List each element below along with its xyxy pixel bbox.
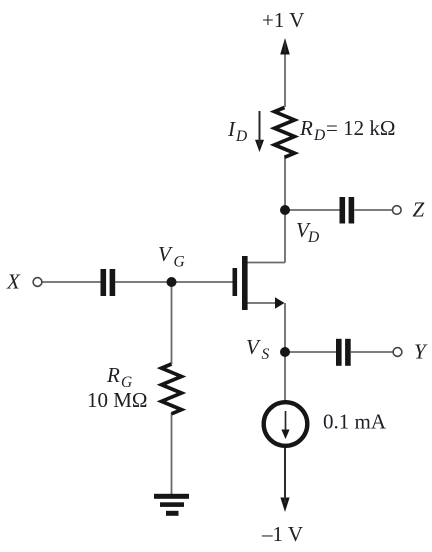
svg-text:–1 V: –1 V <box>261 522 303 546</box>
svg-text:I: I <box>227 117 236 141</box>
svg-text:G: G <box>174 254 185 271</box>
svg-text:V: V <box>158 242 173 266</box>
svg-text:D: D <box>313 127 325 144</box>
svg-text:= 12 kΩ: = 12 kΩ <box>326 116 395 140</box>
svg-text:D: D <box>307 229 319 246</box>
svg-text:10 MΩ: 10 MΩ <box>87 388 148 412</box>
svg-text:0.1 mA: 0.1 mA <box>323 410 387 434</box>
svg-text:S: S <box>262 346 270 363</box>
svg-text:D: D <box>235 128 247 145</box>
svg-text:+1 V: +1 V <box>262 8 304 32</box>
svg-text:V: V <box>246 335 261 359</box>
svg-text:R: R <box>299 116 313 140</box>
svg-text:R: R <box>106 363 120 387</box>
svg-text:X: X <box>6 270 21 294</box>
svg-text:Z: Z <box>413 198 425 222</box>
